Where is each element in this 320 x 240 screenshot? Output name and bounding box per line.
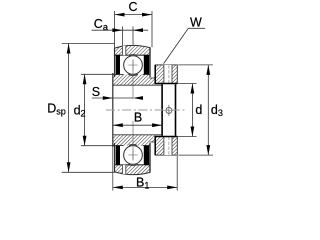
- collar bore thick line top: [155, 83, 178, 85]
- d extension line bottom: [177, 136, 196, 138]
- collar left face thick top: [154, 65, 156, 84]
- seal bottom right: [144, 146, 149, 165]
- svg-text:B: B: [134, 111, 142, 125]
- lubrication hole top: [122, 46, 125, 55]
- dimension d2 extension top: [81, 73, 114, 75]
- inner ring bottom section: [113, 135, 155, 146]
- bore line bottom: [113, 134, 162, 136]
- sphere centre plane line bottom: [132, 121, 134, 161]
- outer ring top section: [115, 45, 151, 55]
- dimension d2 extension bottom: [81, 145, 114, 147]
- dimension B line: [113, 124, 162, 126]
- lubrication hole bottom: [122, 165, 125, 174]
- dimension d3 extension bottom: [178, 154, 213, 156]
- dimension C line: [115, 14, 153, 16]
- inner ring left face line: [112, 73, 114, 147]
- collar bore thick line bottom: [155, 136, 178, 138]
- ball top: [124, 56, 143, 75]
- hole crosshair horizontal: [163, 109, 175, 111]
- seal top left: [116, 55, 120, 74]
- main centreline: [106, 109, 185, 111]
- dimension B1 extension right: [176, 156, 178, 191]
- drilled hole circle: [166, 107, 172, 113]
- svg-text:S: S: [92, 85, 100, 99]
- seal top right: [144, 55, 149, 74]
- sphere centre plane line top: [132, 60, 134, 100]
- ball top centre marks: [128, 64, 137, 66]
- W leader line: [164, 28, 206, 63]
- ball bottom centre marks: [128, 154, 137, 156]
- dimension Ca line: [92, 29, 149, 31]
- ball bottom: [124, 146, 143, 165]
- collar silhouette left line: [161, 84, 163, 136]
- dimension d line: [191, 84, 193, 137]
- outer ring bottom section: [115, 165, 151, 175]
- svg-text:W: W: [190, 16, 202, 30]
- dimension C extension left: [114, 11, 116, 48]
- svg-text:d: d: [195, 103, 202, 117]
- outer ring right face line: [149, 48, 151, 77]
- hole crosshair vertical: [168, 105, 170, 116]
- bore line top: [113, 84, 162, 86]
- raceway gap bottom: [123, 145, 144, 166]
- collar left face thick bottom: [154, 137, 156, 156]
- dimension Dsp extension bottom: [62, 171, 115, 173]
- collar silhouette right line: [175, 84, 177, 136]
- svg-text:C: C: [128, 0, 137, 14]
- collar bottom section: [155, 137, 177, 156]
- seal bottom left: [116, 146, 120, 165]
- raceway gap top: [123, 55, 144, 76]
- dimension B1 extension left: [112, 147, 114, 191]
- collar hole centreline top: [168, 65, 170, 83]
- collar top section: [155, 65, 177, 84]
- outer ring left face line: [114, 48, 116, 77]
- dimension d3 line: [207, 65, 209, 155]
- dimension Ca extension left: [121, 26, 123, 45]
- dimension Ca extension right: [132, 26, 134, 44]
- dimension d2 line: [84, 74, 86, 145]
- dimension B1 line: [113, 186, 177, 188]
- dimension d3 extension top: [178, 64, 213, 66]
- dimension Dsp line: [68, 44, 70, 173]
- dimension S line: [92, 97, 133, 99]
- inner ring top section: [113, 75, 155, 86]
- dimension Dsp extension top: [62, 43, 115, 45]
- d extension line top (collar bore prolongation): [177, 83, 196, 85]
- dimension C extension right: [151, 11, 153, 47]
- collar hole centreline bottom: [168, 137, 170, 155]
